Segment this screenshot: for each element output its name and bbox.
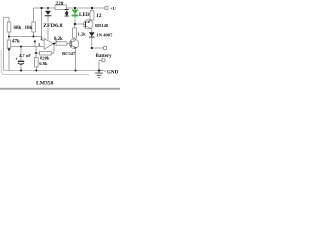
op-amp U1 [44, 39, 53, 50]
svg-text:12: 12 [96, 13, 102, 19]
wire left rail [4, 17, 10, 70]
bottom divider [0, 88, 120, 90]
resistor 8.2k [56, 42, 67, 45]
junction top rail / zener branch [47, 7, 49, 9]
battery - wire [99, 60, 102, 70]
junction bottom rail / capacitor [20, 69, 22, 71]
battery + terminal [104, 47, 107, 50]
svg-text:10k: 10k [25, 26, 33, 31]
junction bottom rail / 6.8k [35, 69, 37, 71]
junction 10k branch node [32, 35, 34, 37]
svg-text:6.8k: 6.8k [39, 61, 48, 66]
svg-text:1: 1 [55, 38, 57, 43]
svg-text:LM358: LM358 [36, 81, 54, 87]
svg-text:Battery: Battery [96, 54, 113, 59]
junction battery plus node [91, 47, 93, 49]
capacitor 4.7uF leads [20, 47, 22, 71]
resistor 220 [55, 5, 67, 10]
feedback node wires [35, 41, 54, 57]
BD140 base bar [84, 21, 87, 27]
junction top rail / 12 ohm branch [91, 7, 93, 9]
capacitor 4.7uF plates [18, 61, 24, 62]
svg-text:1.2k: 1.2k [78, 32, 87, 37]
svg-text:1N 4007: 1N 4007 [97, 33, 114, 38]
svg-text:ZFD6.8: ZFD6.8 [43, 23, 63, 29]
dark symbol marks [7, 7, 103, 78]
resistor 820k [36, 52, 40, 54]
wire pin2 vertical [41, 8, 43, 40]
resistor 12 [91, 8, 93, 11]
trimmer arrow 47k [7, 48, 10, 51]
junction op-amp output node [53, 43, 55, 45]
junction LED / 1.2k / BD140 base [74, 23, 76, 25]
junction 820k left node [35, 52, 37, 54]
labels [12, 1, 119, 87]
svg-text:820k: 820k [40, 55, 50, 60]
resistor 68k [8, 17, 10, 22]
resistor 47k [8, 37, 10, 41]
resistor 1.2k [74, 24, 76, 28]
battery + wire [92, 47, 104, 49]
frame [1, 50, 89, 75]
svg-text:LED: LED [79, 12, 90, 18]
LED symbol (green) [72, 10, 79, 15]
junction pin3 node [34, 40, 36, 42]
+U terminal [105, 7, 108, 10]
wire led to base [75, 23, 84, 25]
ground symbol [98, 71, 101, 73]
wire bottom rail [4, 70, 100, 72]
diode 1N4007 stem [91, 29, 93, 48]
junction bottom rail / ground [98, 69, 100, 71]
svg-text:GND: GND [107, 71, 119, 76]
svg-text:+U: +U [110, 6, 117, 11]
wire 10k branch [33, 8, 35, 37]
junction top rail / pin2 branch [40, 7, 42, 9]
LED wire [74, 8, 76, 24]
diode 1N4007 symbol [89, 32, 95, 36]
zener diode ZFD6.8 symbol [45, 11, 51, 15]
junction cap node [20, 45, 22, 47]
svg-text:4.7 uF: 4.7 uF [19, 53, 31, 58]
BC547 emitter arrow [74, 46, 76, 48]
svg-text:2: 2 [41, 36, 43, 41]
BD140 arrow [88, 21, 90, 23]
wire top rail [34, 7, 106, 9]
resistor 6.8k [35, 58, 39, 68]
transistor BC547 circle [69, 39, 78, 48]
svg-text:BD140: BD140 [95, 23, 109, 28]
battery - terminal [102, 59, 105, 62]
gnd stub [99, 70, 104, 72]
led arrows [65, 9, 69, 17]
capacitor plus sign [16, 58, 18, 60]
resistor 10k [32, 22, 36, 32]
junction bottom rail / BC547 emitter [74, 69, 76, 71]
BC547 base bar [70, 41, 73, 47]
wire divider node [9, 36, 42, 38]
svg-text:220: 220 [56, 1, 64, 7]
svg-text:3: 3 [38, 42, 40, 47]
svg-text:68k: 68k [14, 26, 22, 31]
transistor BD140 circle [84, 20, 93, 29]
zener stem [47, 8, 49, 40]
junction top rail / LED branch [74, 7, 76, 9]
svg-text:47k: 47k [12, 40, 20, 45]
gray wires and outlines [1, 5, 108, 75]
junction 68k-47k divider node [8, 35, 10, 37]
svg-text:BC547: BC547 [62, 51, 76, 56]
